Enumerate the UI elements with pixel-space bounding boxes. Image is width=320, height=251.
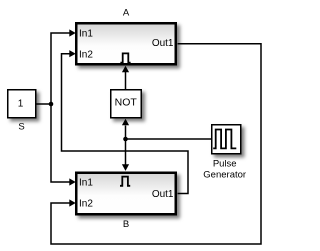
svg-text:In1: In1 bbox=[79, 29, 93, 40]
svg-text:In1: In1 bbox=[79, 178, 93, 189]
svg-text:NOT: NOT bbox=[115, 97, 138, 109]
svg-text:Out1: Out1 bbox=[152, 38, 174, 49]
svg-text:Generator: Generator bbox=[203, 170, 246, 181]
svg-text:1: 1 bbox=[18, 99, 24, 110]
svg-text:In2: In2 bbox=[79, 49, 93, 60]
svg-text:B: B bbox=[123, 219, 129, 230]
svg-text:S: S bbox=[18, 122, 24, 133]
svg-text:A: A bbox=[123, 7, 130, 18]
svg-text:In2: In2 bbox=[79, 199, 93, 210]
svg-text:Pulse: Pulse bbox=[213, 158, 237, 169]
svg-text:Out1: Out1 bbox=[152, 189, 174, 200]
